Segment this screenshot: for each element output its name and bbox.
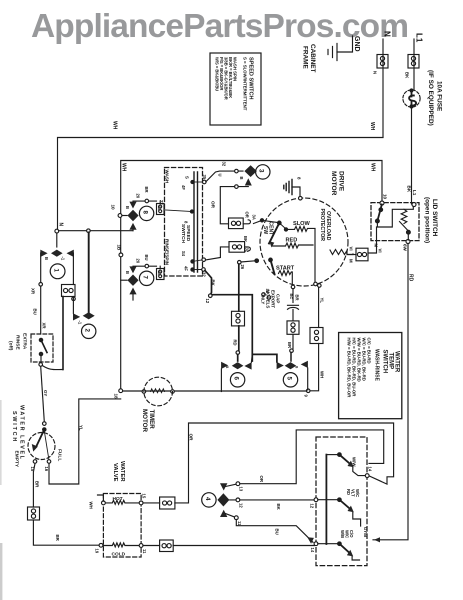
svg-text:19: 19 bbox=[95, 549, 100, 554]
svg-text:1: 1 bbox=[53, 269, 60, 273]
svg-text:YL: YL bbox=[320, 298, 325, 304]
svg-text:YL: YL bbox=[79, 425, 84, 431]
svg-text:CABINET: CABINET bbox=[309, 44, 316, 72]
svg-text:BR: BR bbox=[287, 342, 292, 348]
svg-text:(open position): (open position) bbox=[424, 197, 431, 243]
svg-text:ONLY: ONLY bbox=[261, 293, 266, 305]
svg-text:2: 2 bbox=[84, 329, 91, 333]
svg-text:15: 15 bbox=[142, 494, 147, 499]
svg-text:6W: 6W bbox=[403, 244, 408, 252]
svg-text:M: M bbox=[349, 259, 354, 263]
svg-text:START: START bbox=[276, 266, 295, 272]
svg-text:H/W = BU-RD, BK-RD, BU-OR: H/W = BU-RD, BK-RD, BU-OR bbox=[347, 338, 352, 399]
svg-text:7: 7 bbox=[142, 276, 149, 280]
svg-text:18: 18 bbox=[114, 394, 119, 400]
svg-text:BR: BR bbox=[35, 481, 40, 488]
svg-text:4F: 4F bbox=[181, 185, 186, 190]
svg-text:RD: RD bbox=[346, 489, 351, 495]
svg-text:OR: OR bbox=[211, 201, 216, 209]
svg-text:BR: BR bbox=[144, 187, 149, 193]
svg-text:OR: OR bbox=[189, 434, 194, 442]
svg-text:10: 10 bbox=[383, 194, 388, 200]
svg-text:14: 14 bbox=[368, 467, 373, 472]
svg-text:BK: BK bbox=[407, 186, 412, 193]
svg-text:COLD: COLD bbox=[112, 552, 126, 558]
svg-text:XR: XR bbox=[42, 323, 47, 330]
svg-text:RINSE: RINSE bbox=[15, 335, 21, 350]
svg-text:WH: WH bbox=[112, 121, 118, 130]
svg-text:OR: OR bbox=[259, 476, 264, 483]
svg-text:WATER: WATER bbox=[119, 461, 125, 482]
svg-text:RD: RD bbox=[408, 274, 414, 282]
svg-text:35: 35 bbox=[202, 175, 207, 180]
svg-text:VI: VI bbox=[378, 249, 383, 253]
svg-text:N: N bbox=[373, 71, 378, 74]
svg-text:10A FUSE: 10A FUSE bbox=[436, 81, 443, 112]
svg-text:RD: RD bbox=[233, 340, 238, 346]
svg-text:BU: BU bbox=[33, 309, 38, 315]
svg-text:BK: BK bbox=[243, 236, 248, 242]
svg-text:SWITCH: SWITCH bbox=[382, 350, 388, 374]
svg-text:WH: WH bbox=[121, 163, 127, 172]
svg-text:10: 10 bbox=[111, 205, 116, 211]
svg-text:16: 16 bbox=[44, 467, 49, 472]
svg-text:26: 26 bbox=[240, 265, 245, 270]
svg-text:4F: 4F bbox=[184, 266, 189, 271]
svg-text:12: 12 bbox=[205, 299, 210, 304]
svg-text:L1: L1 bbox=[412, 190, 417, 196]
svg-text:SWITCH: SWITCH bbox=[180, 224, 186, 243]
svg-text:BK: BK bbox=[211, 280, 216, 287]
svg-text:4: 4 bbox=[204, 497, 211, 501]
svg-text:20: 20 bbox=[136, 194, 141, 199]
svg-text:OR: OR bbox=[245, 212, 250, 218]
svg-text:W/B: W/B bbox=[340, 530, 345, 538]
svg-text:TIMER: TIMER bbox=[148, 410, 155, 430]
svg-text:12: 12 bbox=[309, 504, 314, 509]
svg-text:WH: WH bbox=[320, 371, 325, 378]
svg-text:WASH-RINSE: WASH-RINSE bbox=[374, 349, 380, 382]
svg-text:BR: BR bbox=[55, 535, 60, 542]
svg-text:PROTECTOR: PROTECTOR bbox=[319, 209, 325, 242]
svg-text:14: 14 bbox=[310, 548, 315, 553]
svg-text:20: 20 bbox=[136, 259, 141, 264]
svg-text:B: B bbox=[44, 257, 49, 260]
svg-text:B: B bbox=[125, 206, 130, 209]
svg-text:(off): (off) bbox=[8, 341, 14, 351]
svg-text:GY/B: GY/B bbox=[363, 527, 368, 537]
svg-text:32: 32 bbox=[245, 248, 250, 253]
svg-text:S4: S4 bbox=[181, 251, 186, 257]
svg-text:S2: S2 bbox=[157, 271, 162, 277]
svg-text:MOTOR: MOTOR bbox=[330, 171, 337, 196]
svg-text:M: M bbox=[374, 244, 379, 248]
svg-text:8: 8 bbox=[142, 211, 149, 215]
svg-text:WH: WH bbox=[369, 122, 375, 131]
svg-text:WASH: WASH bbox=[165, 170, 170, 184]
svg-text:N: N bbox=[58, 223, 64, 227]
svg-text:BK: BK bbox=[276, 504, 281, 511]
svg-text:W/W: W/W bbox=[352, 457, 357, 467]
svg-text:1B: 1B bbox=[117, 245, 122, 252]
svg-text:3: 3 bbox=[258, 169, 265, 173]
svg-text:32: 32 bbox=[202, 272, 207, 277]
svg-text:WH: WH bbox=[370, 163, 376, 172]
svg-text:S: S bbox=[185, 176, 190, 179]
svg-text:U: U bbox=[218, 174, 223, 177]
svg-text:B: B bbox=[239, 177, 244, 180]
svg-text:SWITCH: SWITCH bbox=[11, 411, 17, 443]
svg-text:N: N bbox=[383, 31, 392, 37]
svg-text:L1: L1 bbox=[415, 33, 424, 43]
svg-text:VI: VI bbox=[349, 247, 354, 251]
svg-text:S2: S2 bbox=[157, 206, 162, 212]
svg-text:WH: WH bbox=[89, 502, 94, 509]
svg-text:XR: XR bbox=[31, 288, 36, 295]
svg-text:32: 32 bbox=[222, 162, 227, 167]
svg-text:RINSE/SPIN: RINSE/SPIN bbox=[165, 239, 170, 266]
svg-text:FULL: FULL bbox=[57, 449, 63, 461]
svg-text:EMPTY: EMPTY bbox=[14, 451, 20, 468]
svg-text:BU: BU bbox=[275, 529, 280, 535]
svg-text:BR: BR bbox=[295, 295, 300, 301]
svg-text:GY: GY bbox=[43, 390, 48, 396]
svg-text:LID SWITCH: LID SWITCH bbox=[431, 199, 438, 237]
svg-text:GND: GND bbox=[353, 36, 360, 52]
svg-text:DRIVE: DRIVE bbox=[338, 171, 345, 192]
svg-text:11: 11 bbox=[142, 549, 147, 554]
svg-text:(IF SO EQUIPPED): (IF SO EQUIPPED) bbox=[427, 70, 434, 126]
svg-text:BU: BU bbox=[144, 255, 149, 261]
svg-text:5: 5 bbox=[286, 377, 293, 381]
svg-text:FRAME: FRAME bbox=[302, 46, 309, 69]
svg-text:EXTRA: EXTRA bbox=[22, 333, 28, 350]
svg-text:3A: 3A bbox=[252, 215, 257, 220]
svg-text:13: 13 bbox=[239, 487, 244, 492]
svg-text:B: B bbox=[125, 271, 130, 274]
svg-text:S = SLOW/INTERMITTENT: S = SLOW/INTERMITTENT bbox=[243, 57, 248, 111]
svg-text:W/S = BK&BK/BU: W/S = BK&BK/BU bbox=[215, 57, 220, 91]
svg-text:12: 12 bbox=[239, 503, 244, 508]
svg-text:MOTOR: MOTOR bbox=[141, 409, 148, 432]
svg-text:BK: BK bbox=[405, 72, 410, 79]
svg-text:VALVE: VALVE bbox=[112, 463, 118, 482]
svg-text:SW: SW bbox=[262, 226, 268, 234]
svg-text:6: 6 bbox=[233, 377, 240, 381]
